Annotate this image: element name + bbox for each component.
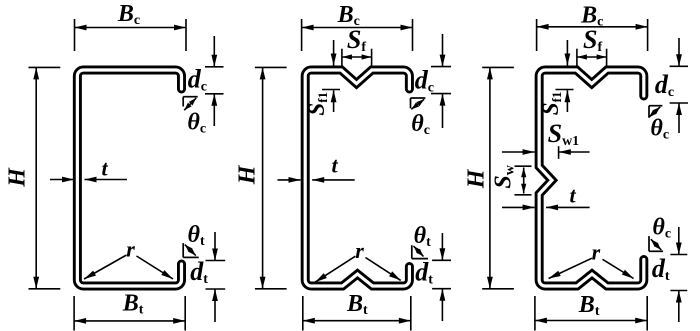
svg-text:dt: dt — [415, 258, 433, 288]
svg-text:dc: dc — [415, 65, 434, 95]
svg-text:dt: dt — [190, 257, 208, 287]
svg-text:Bt: Bt — [346, 291, 368, 318]
svg-text:t: t — [102, 156, 109, 181]
svg-text:H: H — [5, 167, 31, 188]
svg-text:Sf: Sf — [347, 25, 366, 55]
svg-text:θc: θc — [650, 115, 669, 142]
svg-text:H: H — [234, 164, 260, 185]
svg-text:θt: θt — [414, 223, 431, 250]
svg-text:Sw: Sw — [491, 164, 518, 188]
svg-text:Bt: Bt — [122, 291, 144, 318]
svg-text:dt: dt — [652, 254, 670, 284]
svg-text:t: t — [332, 152, 339, 177]
svg-text:H: H — [463, 168, 489, 189]
svg-text:Bc: Bc — [117, 1, 140, 28]
svg-text:t: t — [570, 183, 577, 208]
svg-text:r: r — [126, 237, 135, 262]
svg-text:Sw1: Sw1 — [548, 119, 580, 149]
svg-text:θc: θc — [652, 215, 671, 242]
svg-text:r: r — [355, 238, 364, 263]
svg-text:θc: θc — [411, 111, 430, 138]
svg-text:Bt: Bt — [578, 292, 600, 319]
svg-text:r: r — [592, 240, 601, 265]
svg-text:θc: θc — [187, 110, 206, 137]
svg-text:θt: θt — [188, 222, 205, 249]
svg-text:dc: dc — [655, 70, 674, 100]
svg-text:Sf: Sf — [583, 25, 602, 55]
svg-text:dc: dc — [188, 64, 207, 94]
